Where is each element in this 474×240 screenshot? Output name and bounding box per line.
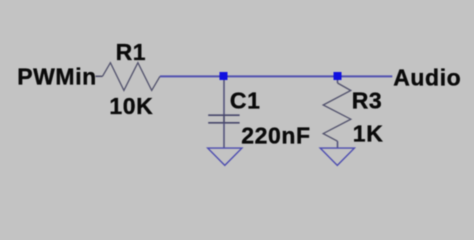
resistor R1: [103, 63, 161, 91]
wire node A to C1: [223, 80, 225, 115]
wire node B to Audio: [338, 75, 393, 77]
svg-text:PWMin: PWMin: [17, 64, 97, 90]
svg-text:Audio: Audio: [393, 65, 461, 91]
capacitor C1: [208, 115, 239, 123]
svg-text:1K: 1K: [353, 120, 384, 146]
svg-text:R1: R1: [116, 39, 147, 65]
ground symbol at C1: [208, 148, 242, 165]
junction node A: [220, 72, 228, 80]
wire C1 to ground: [223, 123, 225, 148]
wire R3 to ground: [337, 141, 339, 148]
resistor R3: [323, 83, 351, 141]
wire node B to R3: [337, 80, 339, 83]
wire node A to node B: [224, 75, 338, 77]
wire R1 to node A: [160, 75, 224, 77]
wire PWMin to R1: [96, 75, 103, 77]
svg-text:10K: 10K: [109, 93, 153, 119]
junction node B: [334, 72, 342, 80]
ground symbol at R3: [320, 148, 354, 165]
svg-text:R3: R3: [352, 87, 383, 113]
svg-text:220nF: 220nF: [241, 123, 310, 149]
svg-text:C1: C1: [230, 87, 261, 113]
